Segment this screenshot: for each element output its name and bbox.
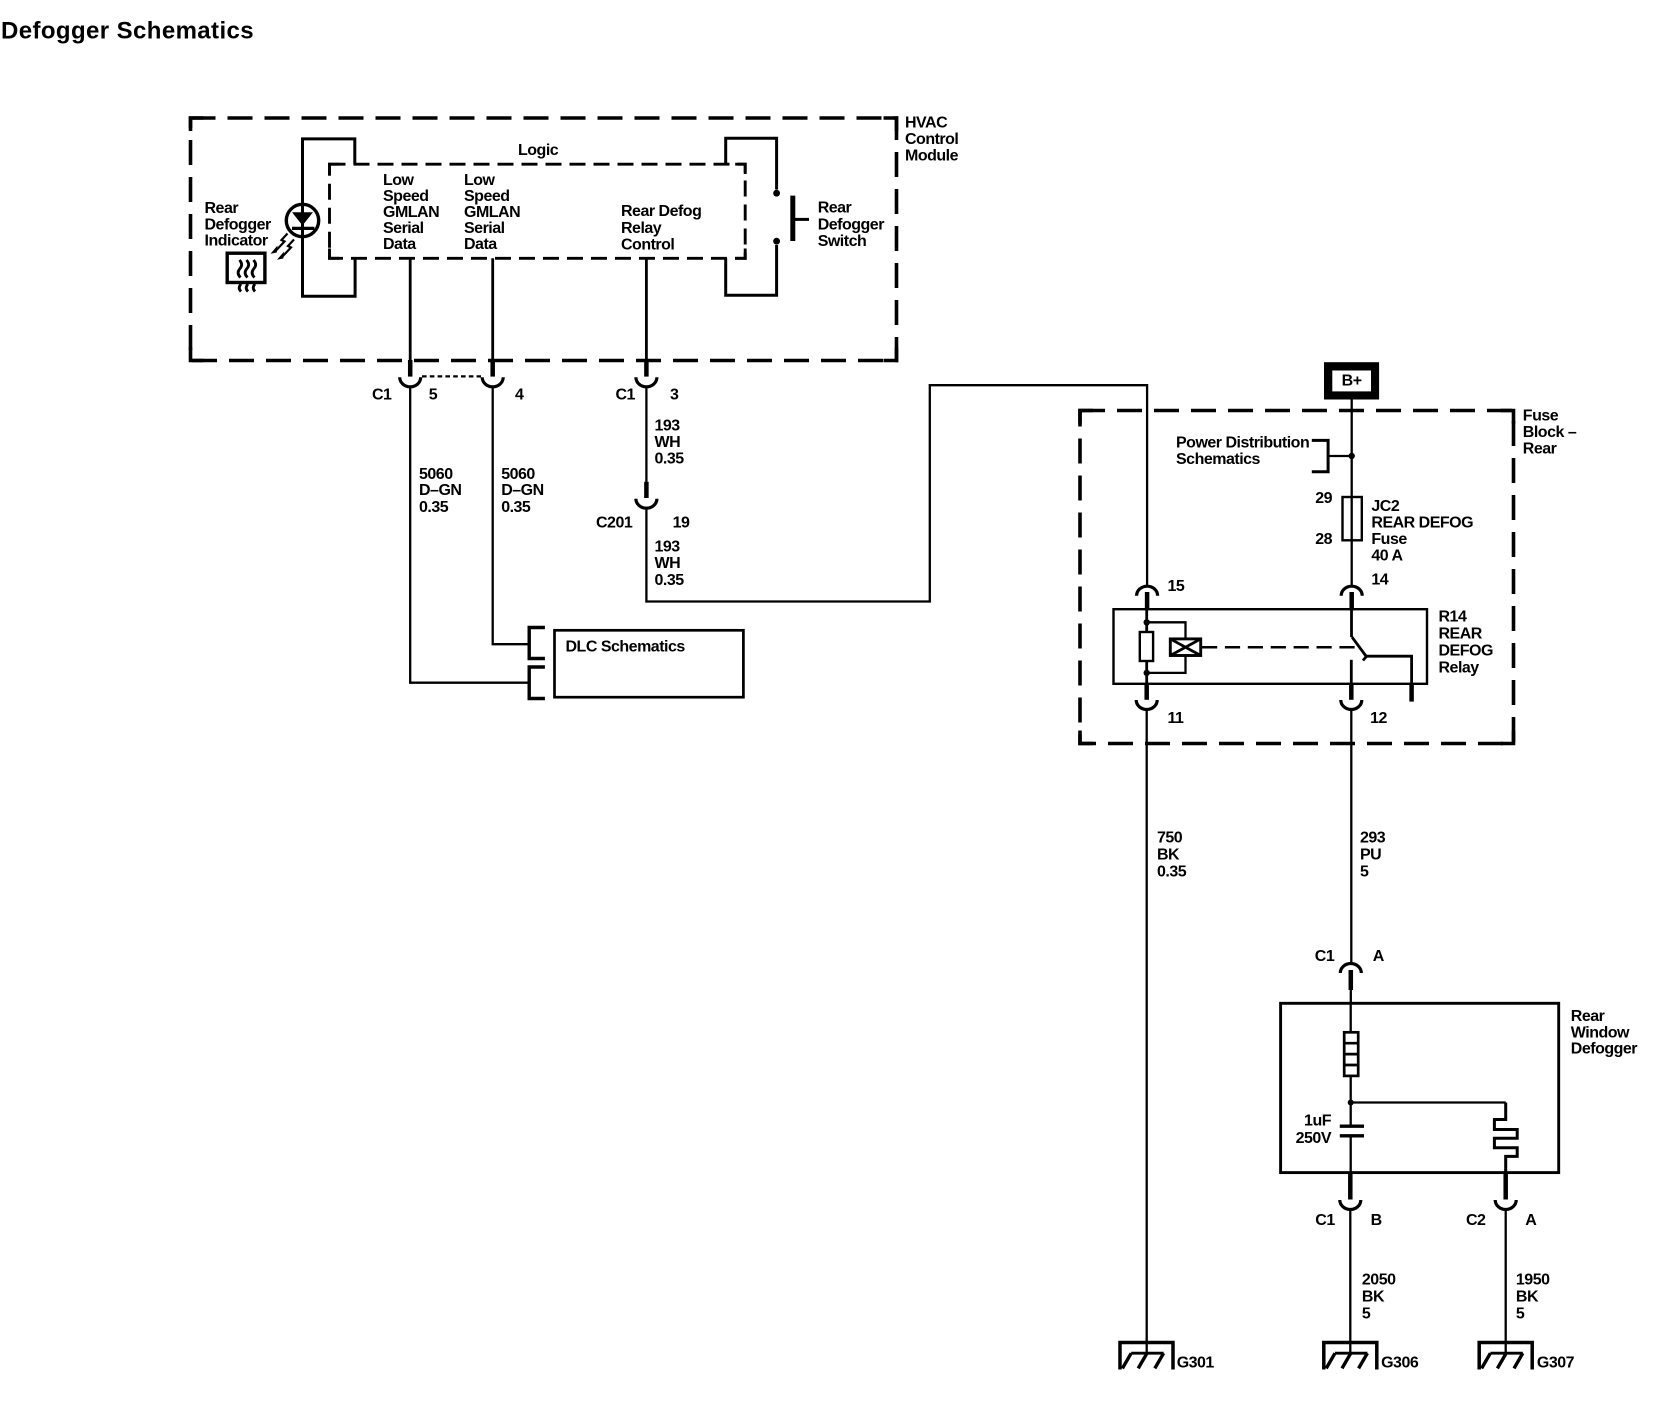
ground G306 [1324,1343,1377,1370]
battery feed B+ [1324,362,1379,399]
svg-text:0.35: 0.35 [501,499,531,516]
capacitor C 1uF 250V [1340,1124,1364,1127]
svg-text:Relay: Relay [621,220,662,237]
wire 2050 BK to G306 [1349,1210,1351,1353]
svg-text:250V: 250V [1296,1130,1332,1147]
connector C201 pin 19 [644,482,649,498]
svg-text:5: 5 [1516,1305,1525,1322]
wire HVAC internal pin 5 [409,258,412,360]
svg-text:C2: C2 [1466,1212,1486,1229]
DLC Schematics box [555,630,744,697]
svg-text:5060: 5060 [501,466,535,483]
LED rear defogger indicator [286,204,318,236]
svg-text:Defogger Schematics: Defogger Schematics [1,18,254,45]
svg-text:GMLAN: GMLAN [383,204,439,221]
svg-text:Rear: Rear [205,200,239,217]
wire relay pin 12 internal [1350,660,1353,684]
svg-text:0.35: 0.35 [419,499,449,516]
svg-text:C1: C1 [616,387,636,404]
Rear Window Defogger box [1281,1003,1559,1172]
DLC upper terminal bracket [529,628,545,659]
wire relay output to stub [1366,656,1411,684]
svg-text:REAR: REAR [1439,626,1483,643]
node coil top [1144,619,1150,625]
svg-text:BK: BK [1516,1288,1539,1305]
svg-text:Window: Window [1571,1024,1630,1041]
svg-text:Schematics: Schematics [1176,451,1261,468]
svg-text:29: 29 [1315,490,1332,507]
svg-text:G301: G301 [1177,1355,1215,1372]
svg-text:DEFOG: DEFOG [1439,643,1493,660]
svg-text:5060: 5060 [419,466,453,483]
svg-text:28: 28 [1315,531,1332,548]
svg-text:Control: Control [621,237,674,254]
ground G301 [1120,1343,1173,1370]
svg-text:R14: R14 [1439,609,1467,626]
wire B+ feed [1351,400,1353,587]
wire capacitor to box bottom [1350,1138,1352,1173]
svg-text:PU: PU [1360,847,1381,864]
node defogger junction [1348,1100,1354,1106]
svg-text:Relay: Relay [1439,660,1480,677]
wire junction to meander [1351,1101,1506,1103]
svg-text:0.35: 0.35 [1157,864,1187,881]
svg-text:Defogger: Defogger [205,216,272,233]
svg-text:D–GN: D–GN [501,482,543,499]
svg-text:Fuse: Fuse [1523,408,1559,425]
wire coil bottom [1145,661,1148,684]
svg-text:A: A [1373,948,1385,965]
wire 1950 BK to G307 [1505,1210,1507,1353]
svg-text:Data: Data [383,236,416,253]
svg-text:Block –: Block – [1523,424,1577,441]
svg-text:1uF: 1uF [1304,1113,1332,1130]
svg-text:Serial: Serial [383,220,424,237]
svg-text:BK: BK [1362,1288,1385,1305]
svg-text:C1: C1 [1315,1212,1335,1229]
ground G307 [1479,1343,1532,1370]
svg-text:40 A: 40 A [1371,548,1403,565]
wire ladder to node [1350,1076,1352,1125]
svg-text:4: 4 [515,387,524,404]
svg-text:5: 5 [1362,1305,1371,1322]
svg-text:11: 11 [1168,710,1185,727]
defogger indicator icon [227,253,265,282]
svg-text:Rear: Rear [1523,441,1557,458]
Power Distribution Schematics bracket [1312,440,1328,471]
svg-text:Low: Low [464,172,496,189]
svg-text:5: 5 [1360,864,1369,881]
wire HVAC internal pin 3 [645,258,648,360]
svg-text:293: 293 [1360,830,1386,847]
svg-text:1950: 1950 [1516,1271,1550,1288]
svg-text:Fuse: Fuse [1371,531,1407,548]
defogger grid meander element [1494,1103,1517,1173]
svg-text:A: A [1525,1212,1537,1229]
svg-text:GMLAN: GMLAN [464,204,520,221]
svg-text:2050: 2050 [1362,1271,1396,1288]
svg-text:B: B [1371,1212,1382,1229]
svg-text:193: 193 [655,539,681,556]
svg-text:B+: B+ [1342,373,1362,390]
pin 3 connector C1 [644,360,649,377]
node switch top contact [773,190,780,197]
node power distribution tap [1349,453,1355,459]
svg-text:15: 15 [1168,578,1185,595]
svg-text:0.35: 0.35 [655,451,685,468]
svg-text:193: 193 [655,417,681,434]
relay armature [1352,637,1366,660]
relay switch fixed contact from pin 14 [1350,609,1353,637]
svg-text:Switch: Switch [818,233,867,250]
svg-text:Speed: Speed [464,188,510,205]
svg-text:Speed: Speed [383,188,429,205]
wire 193 WH run to relay pin 15 [646,385,1147,601]
wire switch bottom bracket [726,245,777,295]
HVAC Control Module box (dashed) [191,118,897,361]
connector C1 dotted link [422,375,481,377]
wire LED loop [303,139,356,296]
svg-text:12: 12 [1370,710,1387,727]
relay coil resistor [1140,632,1153,661]
svg-text:HVAC: HVAC [905,115,948,132]
svg-text:G307: G307 [1537,1355,1575,1372]
svg-text:C1: C1 [372,387,392,404]
svg-text:0.35: 0.35 [655,572,685,589]
suppression element (boxed X) [1170,639,1200,656]
relay actuation dashed link [1202,646,1356,649]
Fuse Block Rear box (dashed) [1080,411,1514,744]
svg-text:Logic: Logic [518,142,559,159]
wire 5060 D-GN from pin 5 [410,387,529,683]
relay R14 REAR DEFOG box [1114,609,1428,684]
svg-text:BK: BK [1157,847,1180,864]
svg-text:3: 3 [670,387,679,404]
wire 293 PU to defogger [1350,710,1352,964]
svg-text:Defogger: Defogger [1571,1041,1638,1058]
svg-text:DLC Schematics: DLC Schematics [566,639,686,656]
wire 193 WH from pin 3 [645,387,647,483]
svg-text:Power Distribution: Power Distribution [1176,434,1309,451]
svg-text:Rear Defog: Rear Defog [621,203,701,220]
svg-text:C1: C1 [1315,948,1335,965]
svg-text:750: 750 [1157,830,1183,847]
svg-text:Data: Data [464,236,497,253]
defogger grid element (ladder) [1344,1032,1358,1076]
pin 11 connector [1144,684,1149,700]
connector C2 pin A [1503,1173,1508,1200]
svg-text:G306: G306 [1381,1355,1419,1372]
svg-text:JC2: JC2 [1371,498,1399,515]
fuse JC2 REAR DEFOG 40 A [1343,497,1362,540]
LED emission arrows [276,234,288,251]
node coil bottom [1144,670,1150,676]
svg-text:D–GN: D–GN [419,482,461,499]
svg-text:Indicator: Indicator [205,233,268,250]
svg-text:14: 14 [1371,571,1388,588]
connector C1 pin B [1348,1173,1353,1200]
svg-text:WH: WH [655,434,681,451]
svg-text:REAR DEFOG: REAR DEFOG [1371,515,1473,532]
relay unused terminal stub [1409,684,1414,702]
svg-text:Rear: Rear [1571,1008,1605,1025]
wire switch top bracket [726,138,777,189]
svg-text:Serial: Serial [464,220,505,237]
wire 750 BK to G301 [1146,710,1148,1353]
svg-text:WH: WH [655,555,681,572]
svg-text:Rear: Rear [818,200,852,217]
wire HVAC internal pin 4 [491,258,494,360]
wire into grid element [1350,1003,1352,1032]
pin 5 connector C1 [408,360,413,377]
svg-text:Control: Control [905,131,958,148]
node switch bottom contact [773,238,780,245]
svg-text:5: 5 [429,387,438,404]
logic box U-Logic (dashed) [330,164,746,258]
wire relay coil feed [1145,609,1148,632]
wire 5060 D-GN from pin 4 [493,387,530,645]
svg-text:C201: C201 [596,515,633,532]
DLC lower terminal bracket [529,667,545,699]
pin 12 connector [1349,684,1354,700]
pin 4 connector C1 [490,360,495,377]
wire suppression branch [1147,622,1186,673]
switch S1 rear defogger pushbutton [790,196,795,241]
svg-text:19: 19 [673,515,690,532]
svg-text:Low: Low [383,172,415,189]
svg-text:Defogger: Defogger [818,217,885,234]
svg-text:Module: Module [905,148,959,165]
